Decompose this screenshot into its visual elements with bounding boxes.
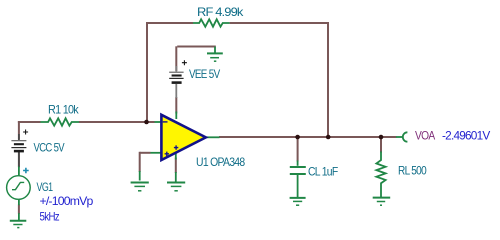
svg-text:VG1: VG1 (37, 180, 54, 194)
svg-text:R1 10k: R1 10k (48, 102, 80, 116)
svg-text:RL 500: RL 500 (398, 163, 427, 177)
svg-text:VEE 5V: VEE 5V (189, 67, 220, 81)
svg-text:+/-100mVp: +/-100mVp (40, 194, 94, 208)
svg-text:VCC 5V: VCC 5V (34, 140, 65, 154)
svg-text:5kHz: 5kHz (40, 209, 60, 223)
svg-text:-2.49601V: -2.49601V (442, 129, 490, 143)
svg-text:RF 4.99k: RF 4.99k (197, 5, 244, 19)
svg-text:U1 OPA348: U1 OPA348 (196, 155, 245, 169)
svg-text:CL 1uF: CL 1uF (308, 164, 338, 178)
svg-text:VOA: VOA (415, 129, 435, 143)
